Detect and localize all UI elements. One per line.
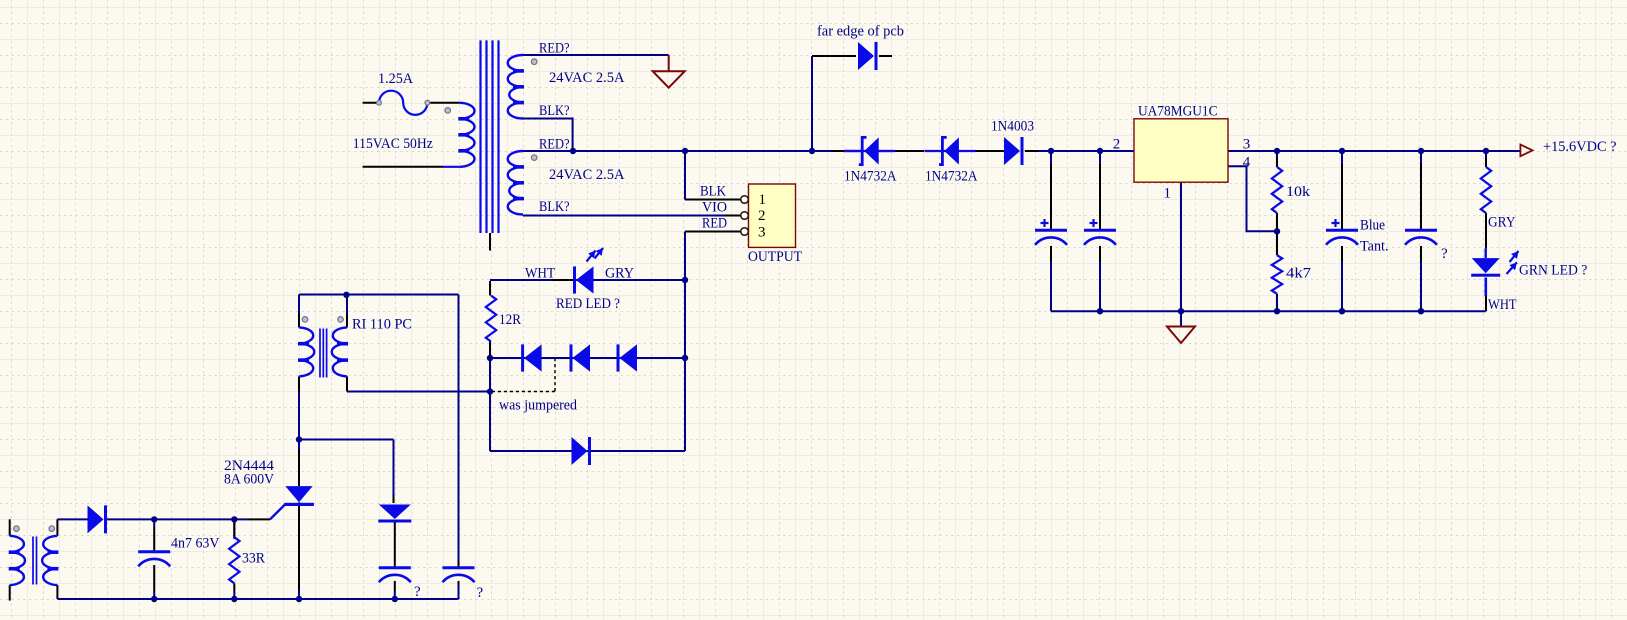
- svg-text:UA78MGU1C: UA78MGU1C: [1138, 104, 1218, 120]
- svg-text:BLK?: BLK?: [539, 199, 570, 215]
- svg-text:RED: RED: [702, 216, 727, 232]
- svg-text:33R: 33R: [242, 551, 265, 567]
- svg-text:4: 4: [1243, 154, 1251, 170]
- svg-text:OUTPUT: OUTPUT: [748, 249, 802, 265]
- svg-text:?: ?: [1441, 246, 1448, 262]
- svg-text:RED?: RED?: [539, 41, 570, 57]
- svg-text:?: ?: [414, 584, 421, 600]
- svg-text:WHT: WHT: [1488, 297, 1517, 313]
- svg-text:GRY: GRY: [1488, 215, 1516, 231]
- svg-text:1N4732A: 1N4732A: [844, 169, 897, 185]
- svg-text:Blue: Blue: [1360, 218, 1385, 234]
- svg-text:BLK: BLK: [700, 184, 726, 200]
- svg-text:24VAC 2.5A: 24VAC 2.5A: [549, 167, 625, 183]
- svg-text:3: 3: [1243, 137, 1251, 153]
- svg-text:12R: 12R: [499, 312, 521, 328]
- svg-text:2: 2: [1113, 137, 1121, 153]
- svg-text:8A 600V: 8A 600V: [224, 472, 274, 488]
- svg-text:1N4732A: 1N4732A: [925, 169, 978, 185]
- svg-text:1.25A: 1.25A: [378, 71, 413, 87]
- svg-text:WHT: WHT: [525, 266, 555, 282]
- svg-text:BLK?: BLK?: [539, 103, 570, 119]
- svg-text:RI 110 PC: RI 110 PC: [352, 317, 412, 333]
- svg-text:?: ?: [477, 585, 484, 601]
- svg-text:1N4003: 1N4003: [991, 119, 1034, 135]
- svg-text:Tant.: Tant.: [1360, 239, 1389, 255]
- svg-text:4k7: 4k7: [1286, 266, 1312, 282]
- svg-text:115VAC 50Hz: 115VAC 50Hz: [353, 136, 433, 152]
- svg-text:1: 1: [759, 192, 767, 208]
- svg-text:10k: 10k: [1286, 184, 1311, 200]
- svg-text:1: 1: [1164, 186, 1172, 202]
- svg-text:24VAC 2.5A: 24VAC 2.5A: [549, 70, 625, 86]
- svg-text:RED?: RED?: [539, 137, 570, 153]
- svg-text:GRY: GRY: [605, 266, 634, 282]
- svg-text:VIO: VIO: [702, 200, 727, 216]
- svg-text:2: 2: [758, 208, 766, 224]
- svg-text:far edge of pcb: far edge of pcb: [817, 24, 904, 40]
- svg-text:4n7 63V: 4n7 63V: [171, 536, 220, 552]
- svg-text:+15.6VDC ?: +15.6VDC ?: [1543, 139, 1617, 155]
- svg-text:was jumpered: was jumpered: [499, 398, 577, 414]
- svg-text:3: 3: [758, 225, 766, 241]
- svg-text:GRN LED ?: GRN LED ?: [1519, 263, 1588, 279]
- svg-text:RED LED ?: RED LED ?: [556, 296, 620, 312]
